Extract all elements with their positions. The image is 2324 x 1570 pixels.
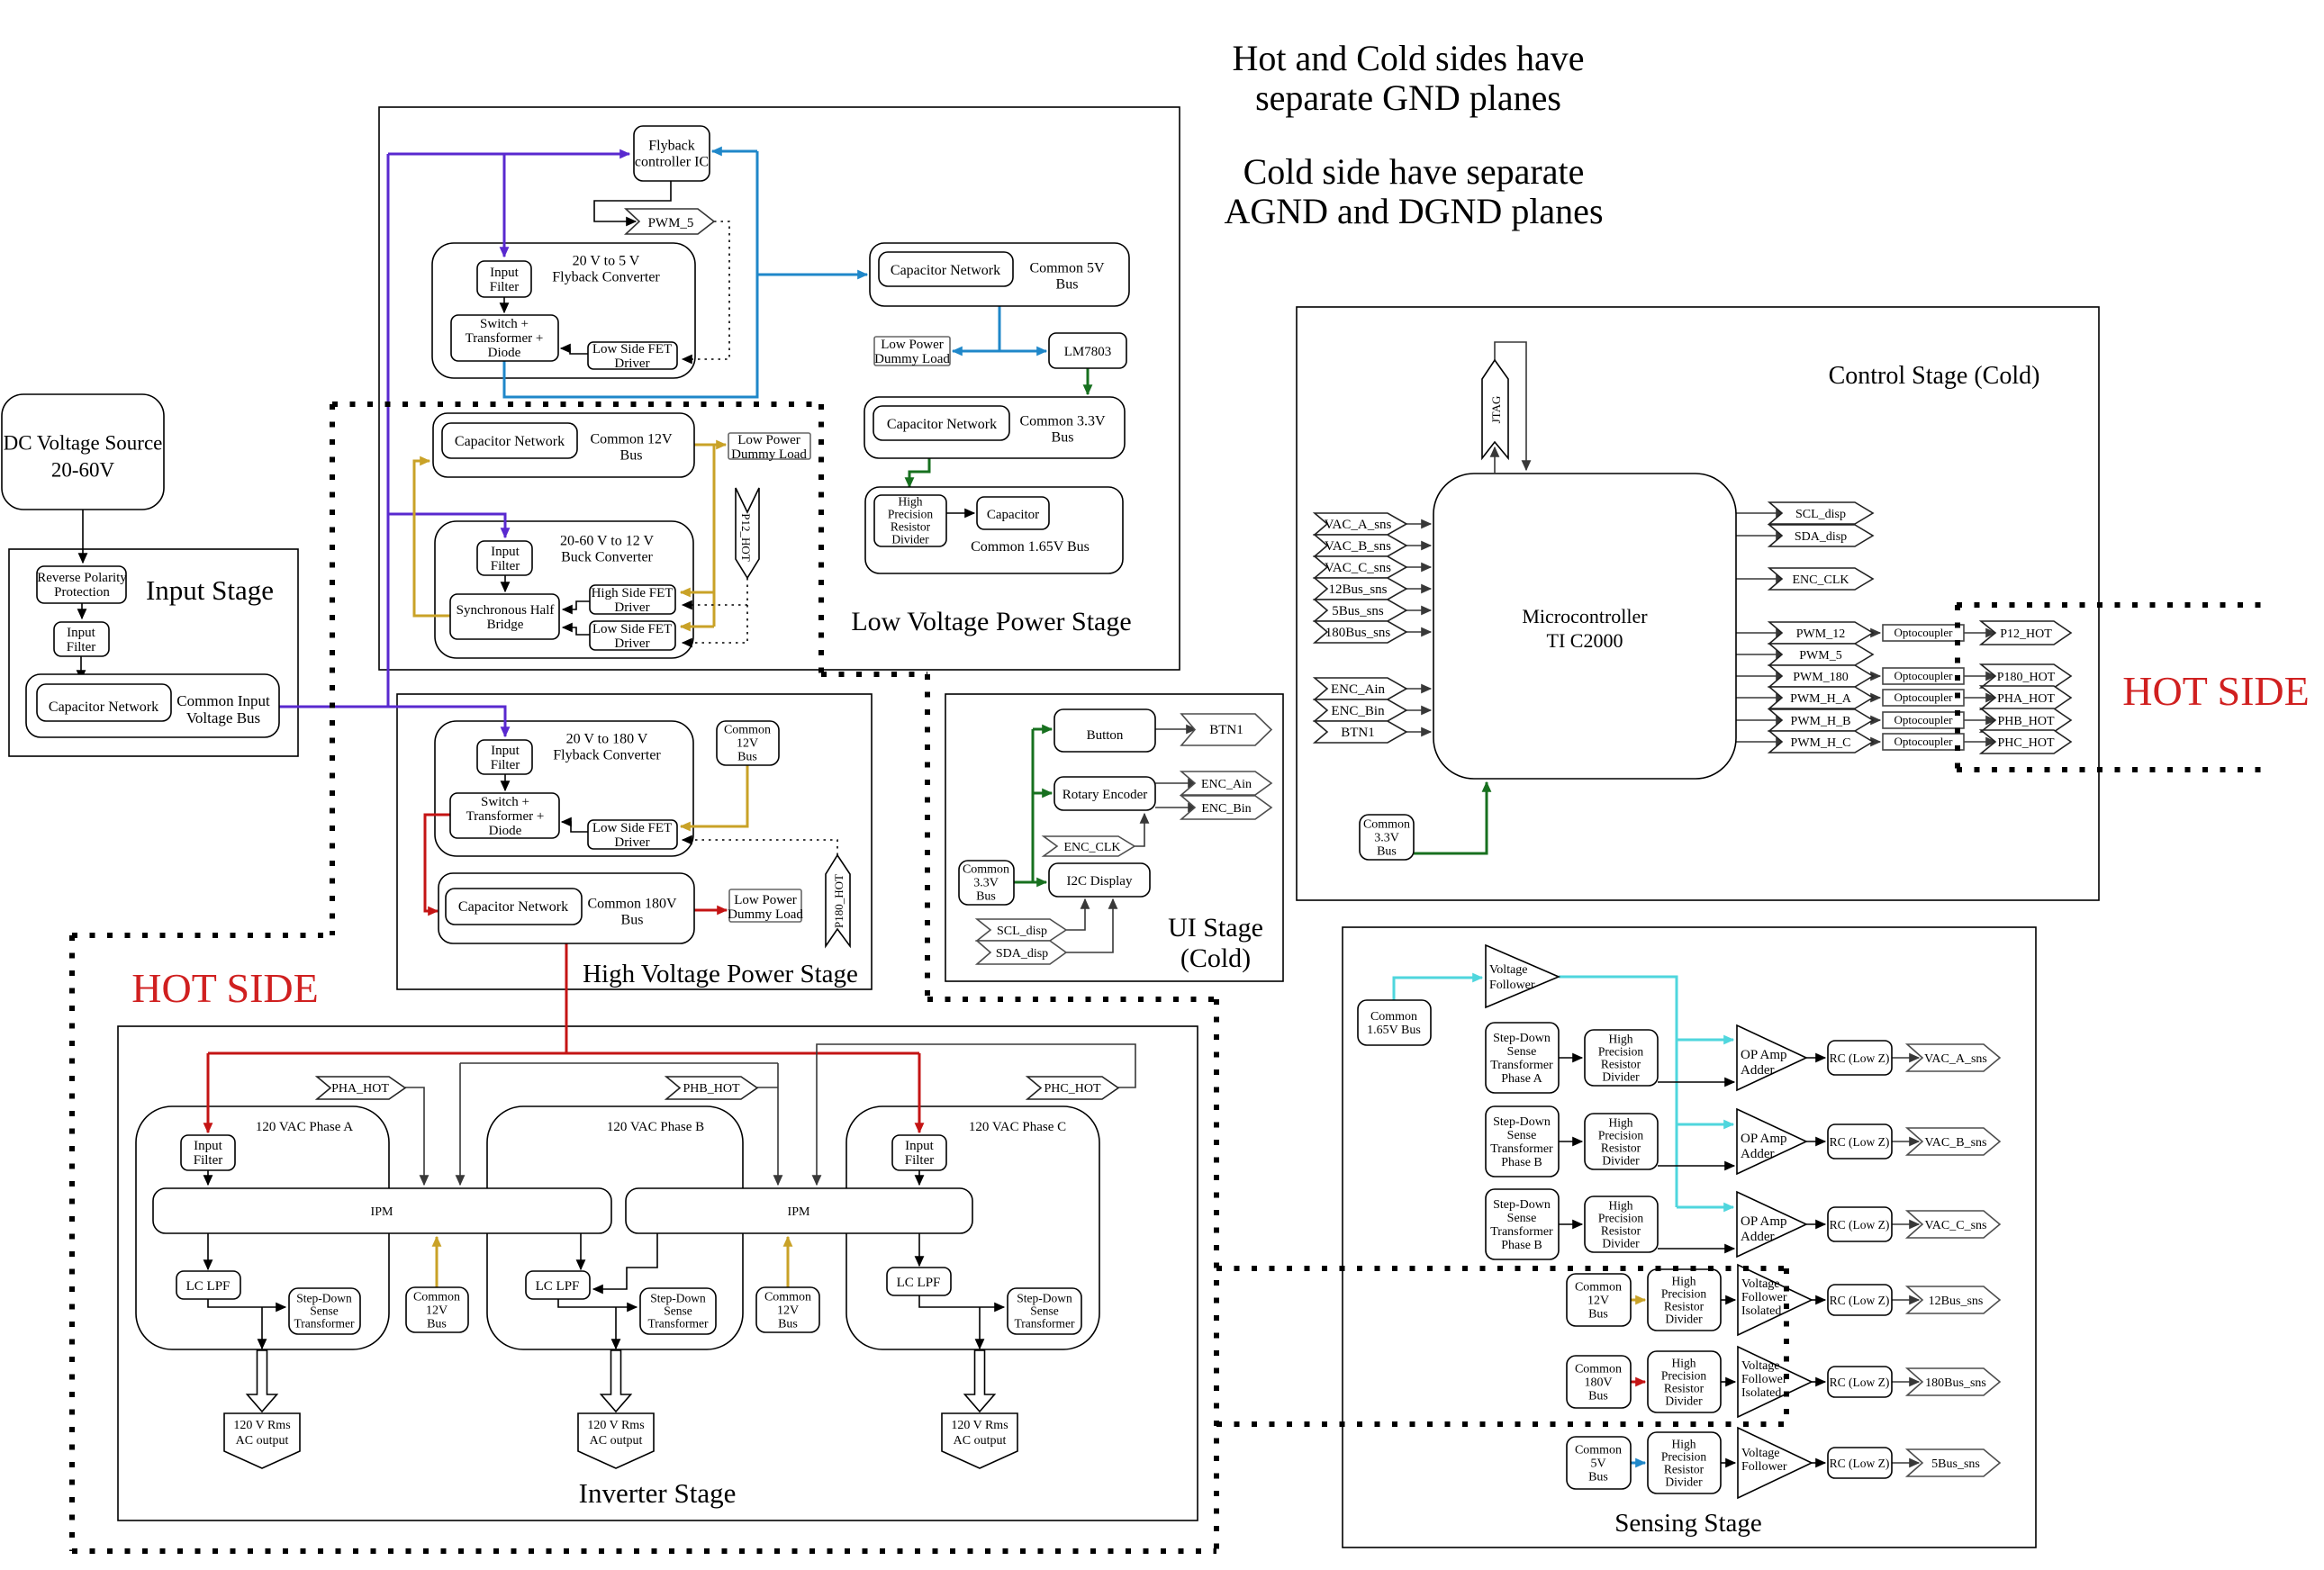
svg-text:Common: Common [764, 1291, 811, 1304]
svg-text:Common 5V: Common 5V [1029, 260, 1105, 275]
svg-text:Isolated: Isolated [1741, 1386, 1781, 1400]
wire: VAC_C_sns to MCU [1406, 566, 1431, 568]
boundary: hot side dotted outline (12V converter box) [332, 404, 1216, 1551]
svg-text:Synchronous Half: Synchronous Half [457, 603, 555, 618]
block: Input Filter (phase C) [892, 1135, 946, 1170]
block: Optocoupler (P12_HOT) [1883, 625, 1964, 641]
svg-text:Driver: Driver [614, 600, 649, 615]
boundary: hot side dotted outline (inverter area) [72, 935, 1216, 1551]
block: Switch + Transformer + Diode (180V) [450, 793, 559, 838]
op-amp: Voltage Follower (5Bus_sns) [1738, 1428, 1812, 1498]
svg-text:PHC_HOT: PHC_HOT [1997, 736, 2054, 750]
block: Step-Down Sense Transformer (A) [289, 1288, 360, 1334]
block: Switch + Transformer + Diode (5V) [451, 315, 558, 361]
wire: PHC_HOT to IPM [817, 1044, 1135, 1185]
wire: divider to follower 180Bus_sns [1721, 1381, 1735, 1383]
svg-text:TI C2000: TI C2000 [1547, 629, 1623, 652]
block: Common 12V Bus (small, 180V stage) [717, 721, 779, 765]
svg-text:RC (Low Z): RC (Low Z) [1830, 1376, 1890, 1389]
svg-text:Bus: Bus [976, 890, 996, 904]
wire: LPF C to transformer [919, 1295, 1004, 1307]
wire: filter to half bridge [504, 575, 506, 591]
wire: optocoupler to P180_HOT [1964, 675, 1995, 677]
wire: op amp to RC VAC_C_sns [1806, 1223, 1825, 1225]
svg-text:Common: Common [1370, 1010, 1417, 1024]
svg-text:120 VAC Phase B: 120 VAC Phase B [607, 1120, 704, 1134]
wire: DC source to reverse polarity protection [82, 510, 84, 563]
svg-text:High: High [1672, 1274, 1696, 1287]
svg-text:120 V Rms: 120 V Rms [233, 1419, 290, 1432]
svg-text:180Bus_sns: 180Bus_sns [1325, 626, 1391, 640]
node: SCL_disp output flag (MCU) [1769, 502, 1873, 524]
wire: 1.65V to voltage follower (cyan) [1394, 978, 1482, 1000]
svg-text:Resistor: Resistor [1664, 1381, 1705, 1394]
wire: 12V bus to dummy load (gold) [694, 444, 726, 447]
wire: 5V bus to loads (blue) [953, 306, 1046, 351]
svg-text:12Bus_sns: 12Bus_sns [1929, 1295, 1984, 1308]
svg-text:PWM_H_B: PWM_H_B [1791, 715, 1851, 728]
node: PWM_H_A output flag (MCU) [1769, 687, 1873, 708]
svg-text:Low Power: Low Power [734, 893, 797, 907]
node: 5Bus_sns input flag (MCU) [1315, 600, 1406, 621]
block: Input Filter (input stage) [54, 622, 109, 656]
svg-text:Transformer: Transformer [294, 1316, 355, 1330]
block: Common 12V Bus (phase A/B) [406, 1287, 468, 1332]
svg-text:Sense: Sense [1030, 1304, 1059, 1317]
svg-text:Common: Common [963, 863, 1009, 877]
svg-text:Diode: Diode [488, 346, 521, 360]
svg-text:Common 3.3V: Common 3.3V [1019, 413, 1106, 429]
wire: optocoupler to PHB_HOT [1964, 719, 1995, 721]
wire: PWM to optocoupler (P180_HOT) [1873, 675, 1880, 677]
svg-text:12V: 12V [1587, 1295, 1609, 1308]
svg-text:Sense: Sense [1507, 1212, 1537, 1225]
block: Input Filter (5V flyback) [477, 261, 531, 297]
wire: ENC_Ain to MCU [1406, 688, 1431, 690]
svg-text:Input: Input [194, 1139, 222, 1153]
svg-text:Cold side have separate: Cold side have separate [1243, 151, 1585, 192]
node: ENC_Ain input flag (MCU) [1315, 678, 1406, 699]
block: Common 5V Bus (sensing) [1567, 1437, 1631, 1489]
block: Step-Down Sense Transformer VAC_B_sns [1486, 1106, 1559, 1177]
svg-text:Sensing Stage: Sensing Stage [1614, 1509, 1762, 1538]
svg-text:RC (Low Z): RC (Low Z) [1830, 1051, 1890, 1065]
svg-text:HOT SIDE: HOT SIDE [2122, 668, 2309, 714]
svg-text:Common: Common [1575, 1363, 1622, 1376]
wire: RC to flag VAC_B_sns [1892, 1141, 1919, 1142]
wire: MCU to PWM_180 [1736, 675, 1786, 677]
block: Step-Down Sense Transformer VAC_C_sns [1486, 1189, 1559, 1259]
wire: follower to RC 12Bus_sns [1812, 1299, 1825, 1301]
svg-text:Follower: Follower [1741, 1291, 1787, 1304]
svg-text:Common 1.65V Bus: Common 1.65V Bus [971, 539, 1090, 555]
svg-text:BTN1: BTN1 [1209, 723, 1243, 737]
svg-text:Bus: Bus [1588, 1390, 1608, 1403]
wire: MCU to PWM_H_C [1736, 741, 1786, 743]
svg-text:180V: 180V [1584, 1376, 1612, 1390]
block: RC (Low Z) (VAC_A_sns) [1828, 1041, 1892, 1075]
svg-text:Filter: Filter [67, 640, 96, 654]
wire: RC to flag 12Bus_sns [1892, 1299, 1919, 1301]
svg-text:Driver: Driver [614, 835, 649, 850]
node: P180_HOT flag [1981, 664, 2071, 688]
svg-text:Bus: Bus [620, 447, 643, 463]
svg-text:120 V Rms: 120 V Rms [951, 1419, 1008, 1432]
label: 120 VAC Phase B [607, 1120, 704, 1134]
wire: P180_HOT dotted to driver [683, 840, 837, 855]
svg-text:PHC_HOT: PHC_HOT [1044, 1082, 1100, 1096]
svg-text:Diode: Diode [489, 824, 522, 838]
node: VAC_C_sns input flag (MCU) [1315, 556, 1406, 578]
wire: divider to follower 12Bus_sns [1721, 1299, 1735, 1301]
svg-text:Optocoupler: Optocoupler [1894, 669, 1954, 682]
svg-text:Isolated: Isolated [1741, 1304, 1781, 1318]
block: RC (Low Z) (12Bus_sns) [1828, 1285, 1892, 1315]
svg-text:SCL_disp: SCL_disp [997, 925, 1047, 938]
svg-text:Switch +: Switch + [481, 795, 529, 809]
svg-text:Divider: Divider [1602, 1069, 1640, 1083]
svg-text:Dummy Load: Dummy Load [874, 352, 950, 366]
svg-text:P180_HOT: P180_HOT [832, 874, 846, 928]
svg-text:Step-Down: Step-Down [650, 1291, 706, 1304]
svg-text:PWM_H_C: PWM_H_C [1791, 736, 1851, 750]
svg-text:Filter: Filter [491, 559, 520, 573]
svg-text:5Bus_sns: 5Bus_sns [1332, 604, 1384, 618]
svg-text:Filter: Filter [491, 758, 520, 772]
wire: SCL_disp to display [1066, 899, 1085, 930]
svg-text:Voltage: Voltage [1741, 1359, 1780, 1373]
wire: MCU to PWM_H_B [1736, 719, 1786, 721]
node: PHB_HOT flag [1981, 708, 2071, 732]
svg-text:PWM_180: PWM_180 [1793, 671, 1848, 684]
svg-text:RC (Low Z): RC (Low Z) [1830, 1135, 1890, 1149]
svg-text:High Side FET: High Side FET [592, 586, 674, 600]
svg-text:Resistor: Resistor [1664, 1299, 1705, 1313]
svg-text:Divider: Divider [1665, 1312, 1703, 1325]
svg-text:High: High [1672, 1356, 1696, 1369]
svg-text:Transformer +: Transformer + [466, 331, 544, 346]
node: ENC_CLK output flag (MCU) [1769, 568, 1873, 590]
block: RC (Low Z) (VAC_C_sns) [1828, 1207, 1892, 1241]
svg-text:AC output: AC output [590, 1434, 643, 1448]
svg-text:Capacitor: Capacitor [987, 508, 1039, 522]
svg-text:20-60 V to 12 V: 20-60 V to 12 V [560, 533, 654, 548]
svg-text:Optocoupler: Optocoupler [1894, 713, 1954, 726]
svg-text:20 V to 180 V: 20 V to 180 V [566, 731, 648, 746]
svg-text:Button: Button [1087, 728, 1124, 743]
svg-text:Low Power: Low Power [737, 433, 800, 447]
node: PWM_5 output flag (MCU) [1769, 644, 1873, 665]
svg-text:Adder: Adder [1741, 1147, 1775, 1161]
wire: 12Bus_sns to MCU [1406, 588, 1431, 590]
wire: PHA_HOT to IPM [405, 1087, 424, 1185]
svg-text:Optocoupler: Optocoupler [1894, 626, 1954, 639]
svg-text:OP Amp: OP Amp [1741, 1132, 1787, 1146]
label: Inverter Stage [579, 1477, 737, 1509]
svg-text:Resistor: Resistor [1601, 1141, 1641, 1154]
wire: divider to op amp VAC_B_sns [1658, 1165, 1734, 1167]
svg-text:Reverse Polarity: Reverse Polarity [37, 571, 127, 585]
wire: IPM to LC LPF C [918, 1233, 920, 1266]
svg-text:Divider: Divider [1665, 1394, 1703, 1407]
svg-text:Bus: Bus [778, 1318, 798, 1331]
block: Input Filter (buck) [477, 541, 532, 575]
block: Common 12V Bus (sensing) [1567, 1274, 1631, 1326]
node: 5Bus_sns flag [1907, 1449, 2000, 1476]
block: High Precision Resistor Divider (VAC_C_sns) [1585, 1196, 1658, 1252]
block: Step-Down Sense Transformer (C) [1008, 1288, 1081, 1334]
svg-text:Transformer: Transformer [1015, 1316, 1075, 1330]
svg-text:Dummy Load: Dummy Load [728, 907, 803, 922]
op-amp: Voltage Follower (180Bus_sns) [1738, 1347, 1812, 1417]
op-amp: OP Amp Adder (VAC_C_sns) [1737, 1192, 1806, 1257]
block: Voltage Follower (1.65V) [1486, 945, 1559, 1007]
block: Common 180V Bus (sensing) [1567, 1356, 1631, 1408]
svg-text:RC (Low Z): RC (Low Z) [1830, 1457, 1890, 1470]
svg-text:Common 12V: Common 12V [590, 431, 673, 447]
node: 12Bus_sns flag [1907, 1286, 2000, 1313]
wire: MCU to SDA_disp [1736, 535, 1786, 537]
wire: RC to flag VAC_A_sns [1892, 1057, 1919, 1059]
wire: 5V bus to divider (colored) [1631, 1462, 1645, 1465]
svg-text:Input: Input [67, 626, 95, 640]
wire: buck output to 12V bus (gold) [414, 461, 450, 616]
svg-text:Resistor: Resistor [1601, 1057, 1641, 1070]
block: High Precision Resistor Divider (12Bus_sns) [1648, 1269, 1721, 1331]
svg-text:VAC_C_sns: VAC_C_sns [1925, 1219, 1987, 1232]
wire: 180V output to bus (red) [425, 815, 450, 911]
svg-text:Common: Common [1575, 1281, 1622, 1295]
svg-text:LC LPF: LC LPF [536, 1279, 580, 1294]
wire: output drop x=1088 [979, 1307, 981, 1349]
block: Flyback controller IC [634, 126, 710, 181]
block: Common 1.65V Bus [865, 487, 1123, 573]
svg-text:OP Amp: OP Amp [1741, 1214, 1787, 1229]
block: I2C Display [1049, 863, 1150, 897]
node: PWM_H_C output flag (MCU) [1769, 731, 1873, 753]
wire: to capacitor network [80, 656, 82, 680]
svg-text:Switch +: Switch + [480, 317, 529, 331]
svg-text:IPM: IPM [788, 1205, 810, 1219]
svg-text:Phase A: Phase A [1501, 1072, 1542, 1086]
container: Sensing Stage box [1343, 927, 2036, 1547]
svg-text:3.3V: 3.3V [973, 877, 999, 890]
svg-text:ENC_CLK: ENC_CLK [1064, 841, 1121, 854]
svg-text:Bus: Bus [1377, 845, 1397, 859]
svg-text:P12_HOT: P12_HOT [2000, 627, 2052, 641]
block: Input Filter (phase A) [181, 1135, 235, 1170]
wire: BTN1 to MCU [1406, 731, 1431, 733]
block: Optocoupler (PHC_HOT) [1883, 734, 1964, 750]
svg-text:VAC_A_sns: VAC_A_sns [1924, 1052, 1987, 1066]
symbol: AC output double arrow x=291 [248, 1350, 277, 1412]
wire: rotary to ENC_Bin [1155, 807, 1198, 808]
block: DC Voltage Source 20-60V [2, 394, 164, 510]
svg-text:Voltage Bus: Voltage Bus [186, 709, 260, 726]
svg-text:Capacitor Network: Capacitor Network [458, 899, 568, 915]
svg-text:PHA_HOT: PHA_HOT [1997, 692, 2055, 706]
wire: op amp to RC VAC_B_sns [1806, 1141, 1825, 1142]
block: Common 1.65V Bus (sensing) [1358, 1000, 1431, 1045]
node: 120 V Rms AC output x=684 [578, 1413, 654, 1468]
wire: IPM to LC LPF B [580, 1233, 582, 1269]
node: PHA_HOT flag (inverter) [317, 1077, 405, 1099]
svg-text:Capacitor Network: Capacitor Network [49, 699, 158, 715]
svg-text:Common 180V: Common 180V [587, 896, 677, 911]
block: Microcontroller TI C2000 [1433, 474, 1736, 779]
label: Low Voltage Power Stage [851, 607, 1131, 636]
svg-text:12V: 12V [737, 737, 758, 751]
svg-text:Precision: Precision [1661, 1286, 1706, 1300]
block: Low Power Dummy Load (5V) [874, 337, 950, 366]
label: Sensing Stage [1614, 1509, 1762, 1538]
wire: 3.3V bus to resistor divider (green) [909, 458, 929, 487]
svg-text:Common Input: Common Input [176, 692, 270, 709]
svg-text:Step-Down: Step-Down [1493, 1115, 1551, 1129]
svg-text:Precision: Precision [1598, 1128, 1643, 1141]
wire: op amp to RC VAC_A_sns [1806, 1057, 1825, 1059]
svg-text:Common: Common [1363, 818, 1410, 832]
svg-text:Precision: Precision [1661, 1368, 1706, 1382]
svg-text:Divider: Divider [1602, 1236, 1640, 1250]
node: ENC_Bin flag (UI) [1181, 796, 1271, 819]
wire: MCU to PWM_12 [1736, 632, 1786, 634]
label: Input Stage [146, 574, 274, 606]
wire: MCU to SCL_disp [1736, 512, 1786, 514]
svg-text:LC LPF: LC LPF [897, 1276, 941, 1290]
node: PWM_H_B output flag (MCU) [1769, 709, 1873, 731]
op-amp: OP Amp Adder (VAC_A_sns) [1737, 1025, 1806, 1090]
svg-text:UI Stage: UI Stage [1168, 913, 1263, 943]
block: Synchronous Half Bridge [450, 594, 559, 639]
wire: follower output rail (cyan) [1559, 977, 1733, 1207]
wire: 12V bus to divider (colored) [1631, 1299, 1645, 1302]
node: 12Bus_sns input flag (MCU) [1315, 578, 1406, 600]
wire: RC to flag 180Bus_sns [1892, 1381, 1919, 1383]
node: BTN1 input flag (MCU) [1315, 721, 1406, 743]
svg-text:Adder: Adder [1741, 1230, 1775, 1244]
svg-text:AGND and DGND planes: AGND and DGND planes [1224, 191, 1603, 231]
svg-text:Hot and Cold sides have: Hot and Cold sides have [1232, 38, 1584, 78]
svg-text:Capacitor Network: Capacitor Network [455, 434, 565, 449]
wire: IPM2 to LC LPF B [593, 1233, 657, 1289]
block: Common 12V Bus [433, 413, 694, 477]
block: Step-Down Sense Transformer (B) [640, 1288, 716, 1334]
block: Optocoupler (P180_HOT) [1883, 668, 1964, 684]
svg-text:(Cold): (Cold) [1180, 943, 1251, 973]
wire: transformer to divider VAC_B_sns [1559, 1141, 1582, 1142]
svg-text:5Bus_sns: 5Bus_sns [1931, 1457, 1980, 1471]
svg-text:Driver: Driver [614, 356, 649, 371]
boundary: hot side dotted band (optocouplers) [1957, 605, 2269, 770]
svg-text:Transformer: Transformer [648, 1316, 709, 1330]
wire: VAC_A_sns to MCU [1406, 523, 1431, 525]
svg-text:Control Stage (Cold): Control Stage (Cold) [1829, 362, 2040, 390]
block: Low Power Dummy Load (12V) [728, 433, 810, 462]
wire: IPM to LC LPF A [207, 1233, 209, 1269]
svg-text:PHA_HOT: PHA_HOT [331, 1082, 389, 1096]
svg-text:Input: Input [490, 266, 519, 280]
node: VAC_A_sns input flag (MCU) [1315, 513, 1406, 535]
symbol: AC output double arrow x=684 [601, 1350, 631, 1412]
wire: low side driver to bridge [563, 627, 590, 635]
block: Common Input Voltage Bus [26, 674, 279, 737]
svg-text:controller IC: controller IC [635, 154, 709, 169]
svg-text:Bus: Bus [1588, 1471, 1608, 1484]
svg-text:Resistor: Resistor [1601, 1223, 1641, 1237]
svg-text:Capacitor Network: Capacitor Network [891, 263, 1000, 278]
svg-text:PHB_HOT: PHB_HOT [683, 1082, 739, 1096]
svg-text:SDA_disp: SDA_disp [996, 947, 1048, 961]
svg-text:PHB_HOT: PHB_HOT [1997, 715, 2054, 728]
wire: common input voltage bus (purple net) [279, 154, 629, 736]
node: PHB_HOT flag (inverter) [666, 1077, 757, 1099]
node: 120 V Rms AC output x=1088 [942, 1413, 1017, 1468]
node: PWM_5 flag [626, 209, 714, 234]
svg-text:120 V Rms: 120 V Rms [587, 1419, 644, 1432]
svg-text:1.65V Bus: 1.65V Bus [1367, 1024, 1421, 1037]
wire: 3.3V to UI blocks (green) [1014, 729, 1052, 882]
svg-text:Transformer: Transformer [1490, 1059, 1553, 1072]
label: HOT SIDE (left) [131, 965, 318, 1011]
svg-text:Follower: Follower [1741, 1460, 1787, 1474]
op-amp: OP Amp Adder (VAC_B_sns) [1737, 1109, 1806, 1174]
svg-text:Flyback Converter: Flyback Converter [553, 747, 661, 762]
block: RC (Low Z) (180Bus_sns) [1828, 1367, 1892, 1397]
block: High Precision Resistor Divider (5Bus_sns) [1648, 1432, 1721, 1493]
svg-text:PWM_5: PWM_5 [1799, 649, 1841, 663]
wire: transformer to divider VAC_C_sns [1559, 1223, 1582, 1225]
block: Optocoupler (PHA_HOT) [1883, 690, 1964, 706]
wire: to input filter [81, 603, 83, 618]
boundary: hot pocket in sensing stage [1216, 1268, 1786, 1424]
block: High Precision Resistor Divider (VAC_A_sns) [1585, 1030, 1658, 1086]
wire: optocoupler to PHC_HOT [1964, 741, 1995, 743]
wire: output drop x=684 [615, 1307, 617, 1349]
svg-text:Microcontroller: Microcontroller [1522, 605, 1648, 627]
node: VAC_A_sns flag [1907, 1044, 2000, 1071]
svg-text:Filter: Filter [490, 280, 520, 294]
svg-text:BTN1: BTN1 [1341, 726, 1375, 740]
svg-text:High: High [1609, 1115, 1633, 1129]
container: Low Voltage Power Stage box [379, 107, 1180, 670]
wire: 5V output feedback (blue net) [504, 151, 867, 397]
note: GND planes header [1224, 38, 1603, 231]
node: 180Bus_sns input flag (MCU) [1315, 621, 1406, 643]
svg-text:Bus: Bus [737, 751, 757, 764]
wire: ENC_CLK to rotary [1135, 814, 1144, 846]
svg-text:Filter: Filter [194, 1153, 223, 1168]
svg-text:DC Voltage Source: DC Voltage Source [4, 432, 163, 455]
svg-text:SCL_disp: SCL_disp [1795, 508, 1846, 521]
block: RC (Low Z) (VAC_B_sns) [1828, 1124, 1892, 1159]
wire: 12V to driver (gold) [681, 765, 747, 826]
wire: transformer to divider VAC_A_sns [1559, 1057, 1582, 1059]
node: P12_HOT banner [736, 488, 759, 578]
node: P12_HOT flag [1981, 621, 2071, 645]
svg-text:20 V to 5 V: 20 V to 5 V [573, 253, 640, 268]
svg-text:LC LPF: LC LPF [186, 1279, 231, 1294]
svg-text:Step-Down: Step-Down [1493, 1032, 1551, 1045]
block: Common 12V Bus (phase B/C) [756, 1287, 819, 1332]
block: Low Power Dummy Load (180V) [728, 889, 803, 922]
svg-text:Sense: Sense [664, 1304, 692, 1317]
wire: 180V bus to inverter input filters (red) [208, 943, 919, 1132]
svg-text:Filter: Filter [905, 1153, 935, 1168]
svg-text:High: High [899, 494, 923, 508]
wire: RC to flag VAC_C_sns [1892, 1223, 1919, 1225]
svg-text:Phase B: Phase B [1501, 1239, 1542, 1252]
